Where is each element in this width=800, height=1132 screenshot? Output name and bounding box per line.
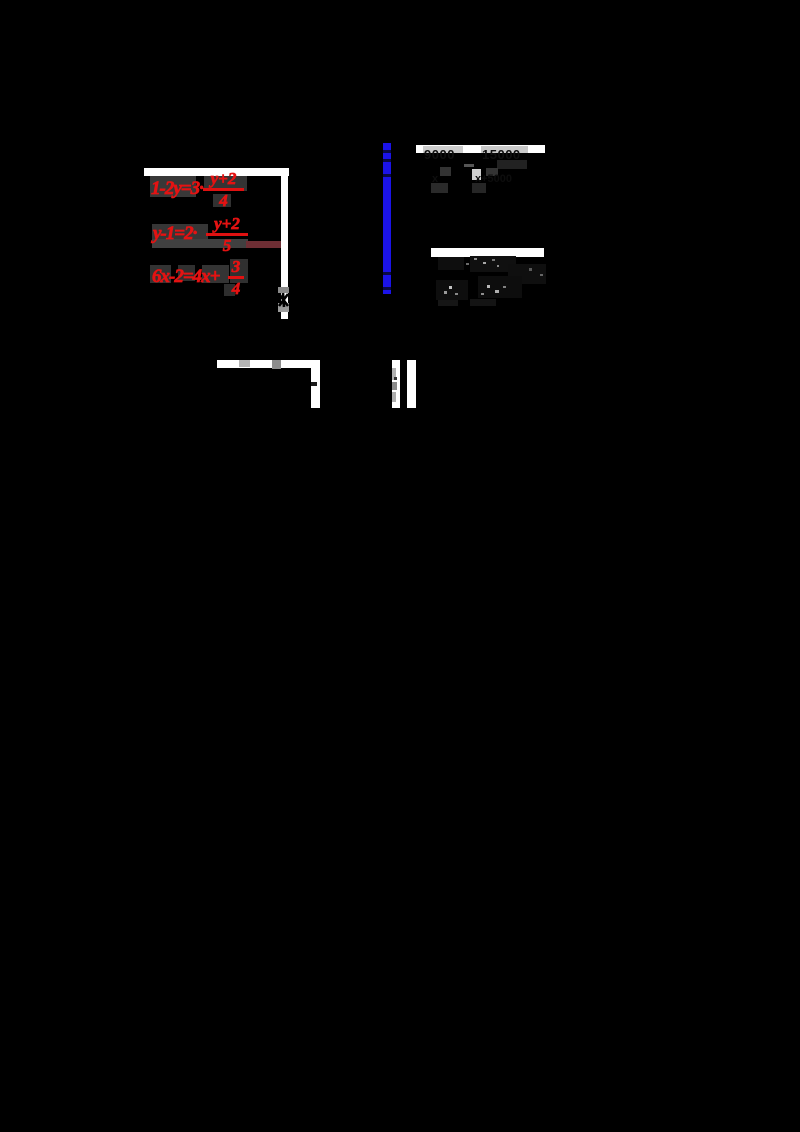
gray smudges on bottom horizontal border: [239, 360, 250, 367]
white vertical bar 1 bottom middle: [392, 360, 400, 408]
red equation 3: 6x-2=4x+ 3/4: [152, 266, 219, 288]
white bar top right: [416, 145, 545, 153]
white bar 2 right: [431, 248, 544, 257]
gray smudges inside bar 1: [392, 368, 396, 380]
white vertical bar 2 bottom middle: [407, 360, 416, 408]
gray smudge behind equation 2 left: [152, 224, 208, 239]
black X scribble on white vertical border: [278, 287, 289, 293]
red equation 2: y-1=2 (y+2)/5: [153, 223, 196, 245]
bottom white border: horizontal: [217, 360, 320, 368]
gray smudges behind equation 3: [150, 265, 171, 283]
light gray patches on white bar: [423, 146, 463, 153]
dark fraction: 9000/x = 15000/(x+5000): [424, 147, 455, 162]
blue highlight bar: [383, 143, 391, 294]
white table border top-left: vertical: [281, 168, 288, 319]
gray smudge behind equation 1 fraction: [204, 176, 247, 191]
dark red smudge line equation 2: [246, 241, 281, 248]
dark dash on bottom vertical border: [311, 382, 317, 386]
red equation 1: 1-2y=3 (y+2)/4: [151, 178, 203, 200]
gray smudge behind equation 1 left: [150, 176, 196, 197]
white table border top-left: horizontal: [144, 168, 289, 176]
faint dark scribbles under white bar 2: [438, 257, 464, 270]
gray smudge under equation 1 denominator: [213, 194, 231, 207]
gray band under equation 2: [152, 239, 248, 248]
bottom white border: vertical: [311, 360, 320, 408]
